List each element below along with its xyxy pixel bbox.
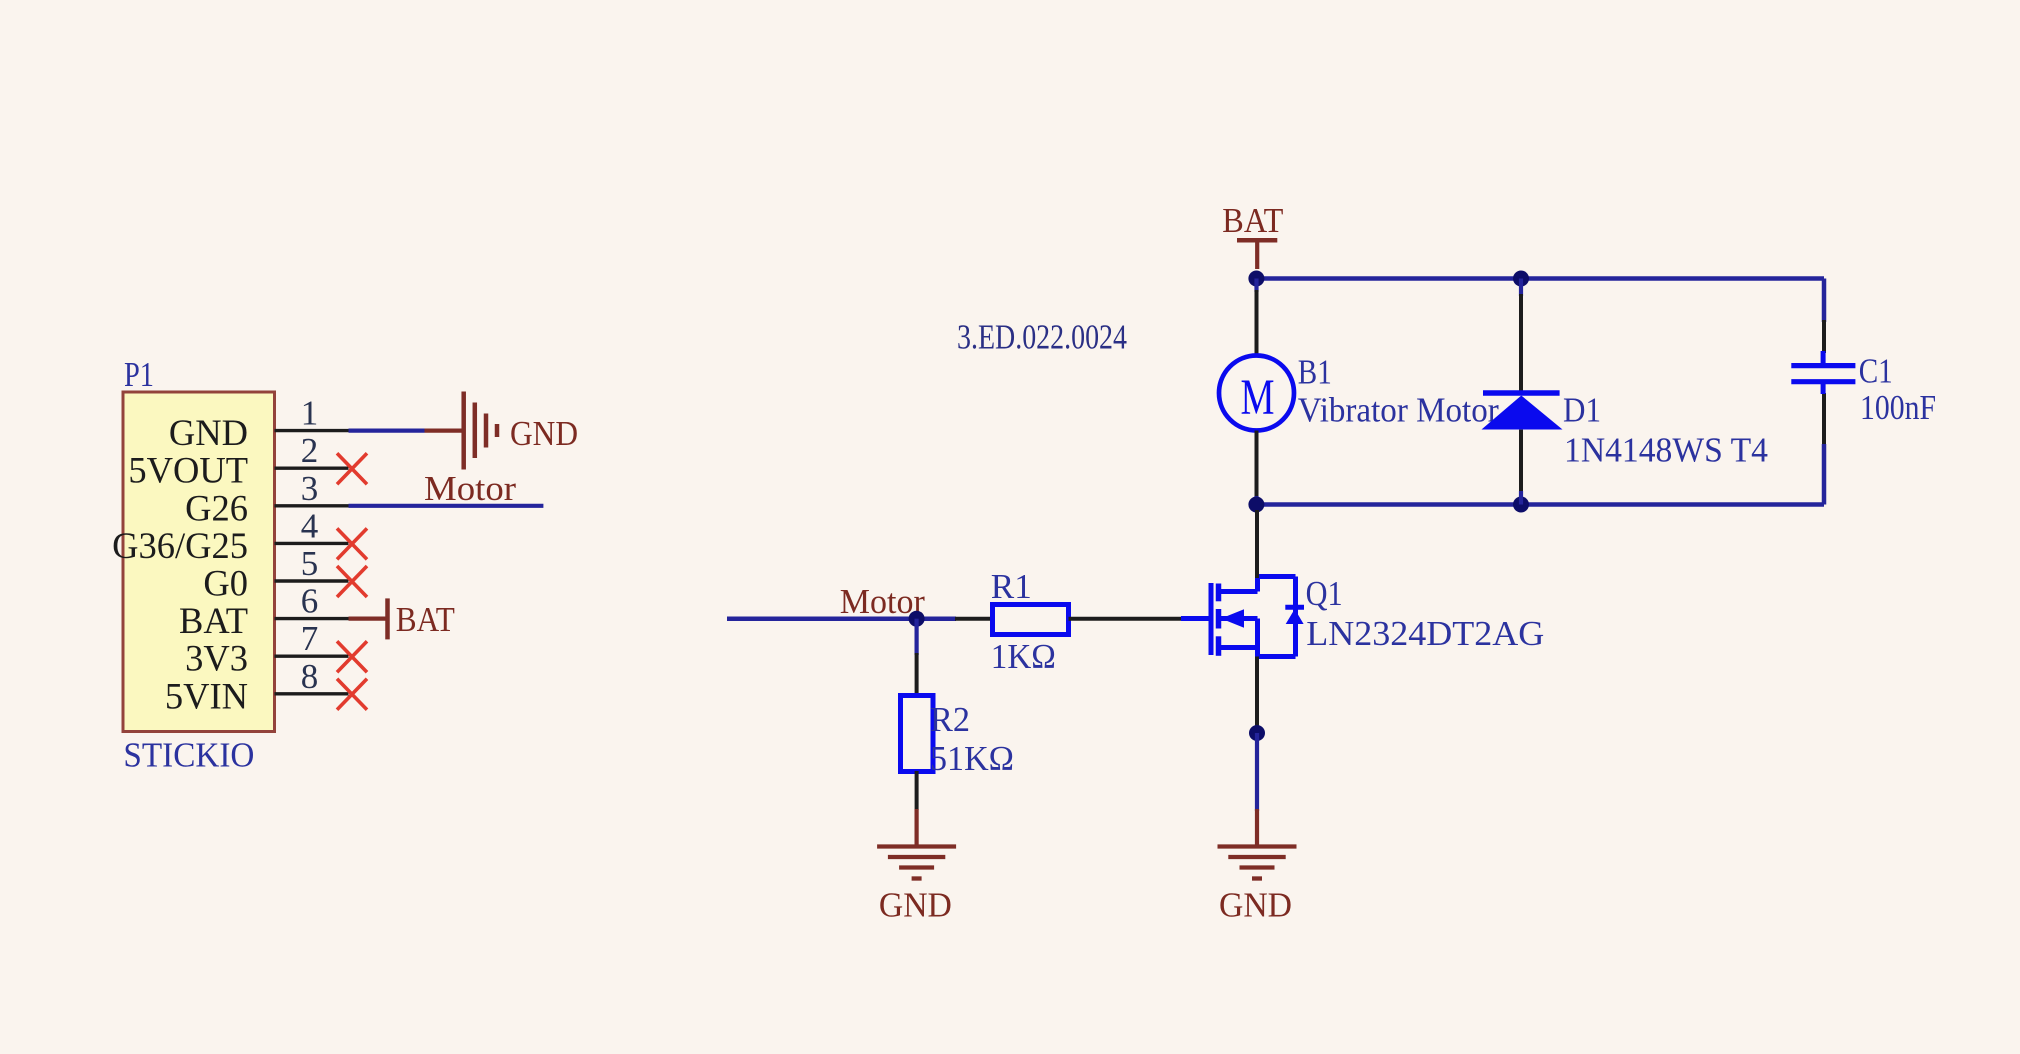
node BAT/diode junction xyxy=(1513,271,1529,287)
connector P1 body xyxy=(123,392,275,732)
transistor Q1 (NMOS) xyxy=(1181,616,1211,621)
pin 8 (5VIN) of P1 xyxy=(275,692,349,695)
pin 1 (GND) of P1 xyxy=(275,429,349,432)
svg-text:BAT: BAT xyxy=(179,600,248,641)
node BAT/motor junction xyxy=(1248,271,1264,287)
svg-text:G26: G26 xyxy=(185,487,248,528)
svg-text:100nF: 100nF xyxy=(1860,388,1936,427)
svg-text:5VIN: 5VIN xyxy=(165,675,248,716)
svg-text:6: 6 xyxy=(301,582,319,621)
wire bottom horizontal (motor to C1) xyxy=(1257,502,1825,507)
svg-text:Q1: Q1 xyxy=(1306,574,1343,613)
wire right vertical (C1 branch) xyxy=(1822,279,1827,323)
svg-text:GND: GND xyxy=(510,414,578,453)
wire Motor net to R1 xyxy=(727,616,956,621)
wire BAT top horizontal xyxy=(1257,276,1825,281)
svg-text:3V3: 3V3 xyxy=(185,638,248,679)
svg-text:BAT: BAT xyxy=(396,600,455,639)
wire R2 to GND xyxy=(915,771,919,810)
svg-text:P1: P1 xyxy=(124,355,154,394)
wire BAT to motor pin xyxy=(1254,279,1258,293)
no-connect X on pin 5 xyxy=(337,566,367,597)
wire pin1 to GND xyxy=(349,429,425,433)
svg-text:Vibrator Motor: Vibrator Motor xyxy=(1298,391,1499,430)
pin 2 (5VOUT) of P1 xyxy=(275,467,349,470)
wire R1 to Q1 gate xyxy=(1069,617,1182,621)
motor B1 circle xyxy=(1219,356,1294,431)
no-connect X on pin 4 xyxy=(337,528,367,559)
resistor R2 xyxy=(901,696,934,772)
svg-text:3: 3 xyxy=(301,469,319,508)
diode D1 xyxy=(1483,390,1560,396)
svg-text:4: 4 xyxy=(301,506,319,545)
no-connect X on pin 8 xyxy=(337,679,367,710)
pin 7 (3V3) of P1 xyxy=(275,655,349,658)
svg-text:5: 5 xyxy=(301,544,319,583)
wire Q1 drain xyxy=(1255,510,1259,578)
power flag BAT (pin6) xyxy=(385,598,390,639)
pin 3 (G26) of P1 xyxy=(275,504,349,507)
svg-text:1N4148WS T4: 1N4148WS T4 xyxy=(1564,431,1768,470)
svg-text:C1: C1 xyxy=(1859,352,1893,391)
node motor/R2 junction xyxy=(909,611,925,627)
wire R2 vertical xyxy=(914,619,918,655)
power flag GND (pin1) xyxy=(461,392,466,470)
svg-text:3.ED.022.0024: 3.ED.022.0024 xyxy=(957,317,1127,356)
svg-text:8: 8 xyxy=(301,657,319,696)
svg-text:R1: R1 xyxy=(991,567,1032,606)
svg-text:LN2324DT2AG: LN2324DT2AG xyxy=(1306,614,1544,653)
svg-text:1KΩ: 1KΩ xyxy=(991,637,1056,676)
svg-text:B1: B1 xyxy=(1298,353,1332,392)
svg-text:GND: GND xyxy=(879,885,952,924)
svg-text:5VOUT: 5VOUT xyxy=(128,450,248,491)
node diode bottom junction xyxy=(1513,497,1529,513)
svg-text:G36/G25: G36/G25 xyxy=(112,525,248,566)
svg-text:GND: GND xyxy=(169,412,248,453)
svg-text:M: M xyxy=(1241,370,1275,426)
wire motor bottom xyxy=(1255,431,1259,499)
pin 4 (G36/G25) of P1 xyxy=(275,542,349,545)
svg-text:1: 1 xyxy=(301,394,319,433)
svg-text:51KΩ: 51KΩ xyxy=(930,739,1014,778)
wire diode branch vertical xyxy=(1519,279,1523,297)
svg-text:GND: GND xyxy=(1219,885,1292,924)
svg-text:7: 7 xyxy=(301,619,319,658)
pin 6 (BAT) of P1 xyxy=(275,617,349,620)
pin 5 (G0) of P1 xyxy=(275,579,349,582)
resistor R1 xyxy=(993,605,1069,635)
ground symbol (left) xyxy=(877,844,956,848)
no-connect X on pin 2 xyxy=(337,453,367,484)
svg-text:D1: D1 xyxy=(1563,391,1601,430)
no-connect X on pin 7 xyxy=(337,641,367,672)
ground symbol (right) xyxy=(1218,844,1297,848)
wire pin3 Motor net xyxy=(349,504,544,508)
svg-text:2: 2 xyxy=(301,431,319,470)
wire Q1 source to GND xyxy=(1255,657,1259,729)
svg-text:BAT: BAT xyxy=(1222,201,1283,240)
svg-text:Motor: Motor xyxy=(424,469,516,508)
wire pin6 to BAT xyxy=(349,616,388,620)
node motor/drain junction xyxy=(1248,497,1264,513)
svg-text:R2: R2 xyxy=(930,700,970,739)
svg-text:G0: G0 xyxy=(203,563,248,604)
node source junction xyxy=(1249,725,1265,741)
capacitor C1 xyxy=(1821,351,1826,366)
svg-text:STICKIO: STICKIO xyxy=(123,735,254,774)
